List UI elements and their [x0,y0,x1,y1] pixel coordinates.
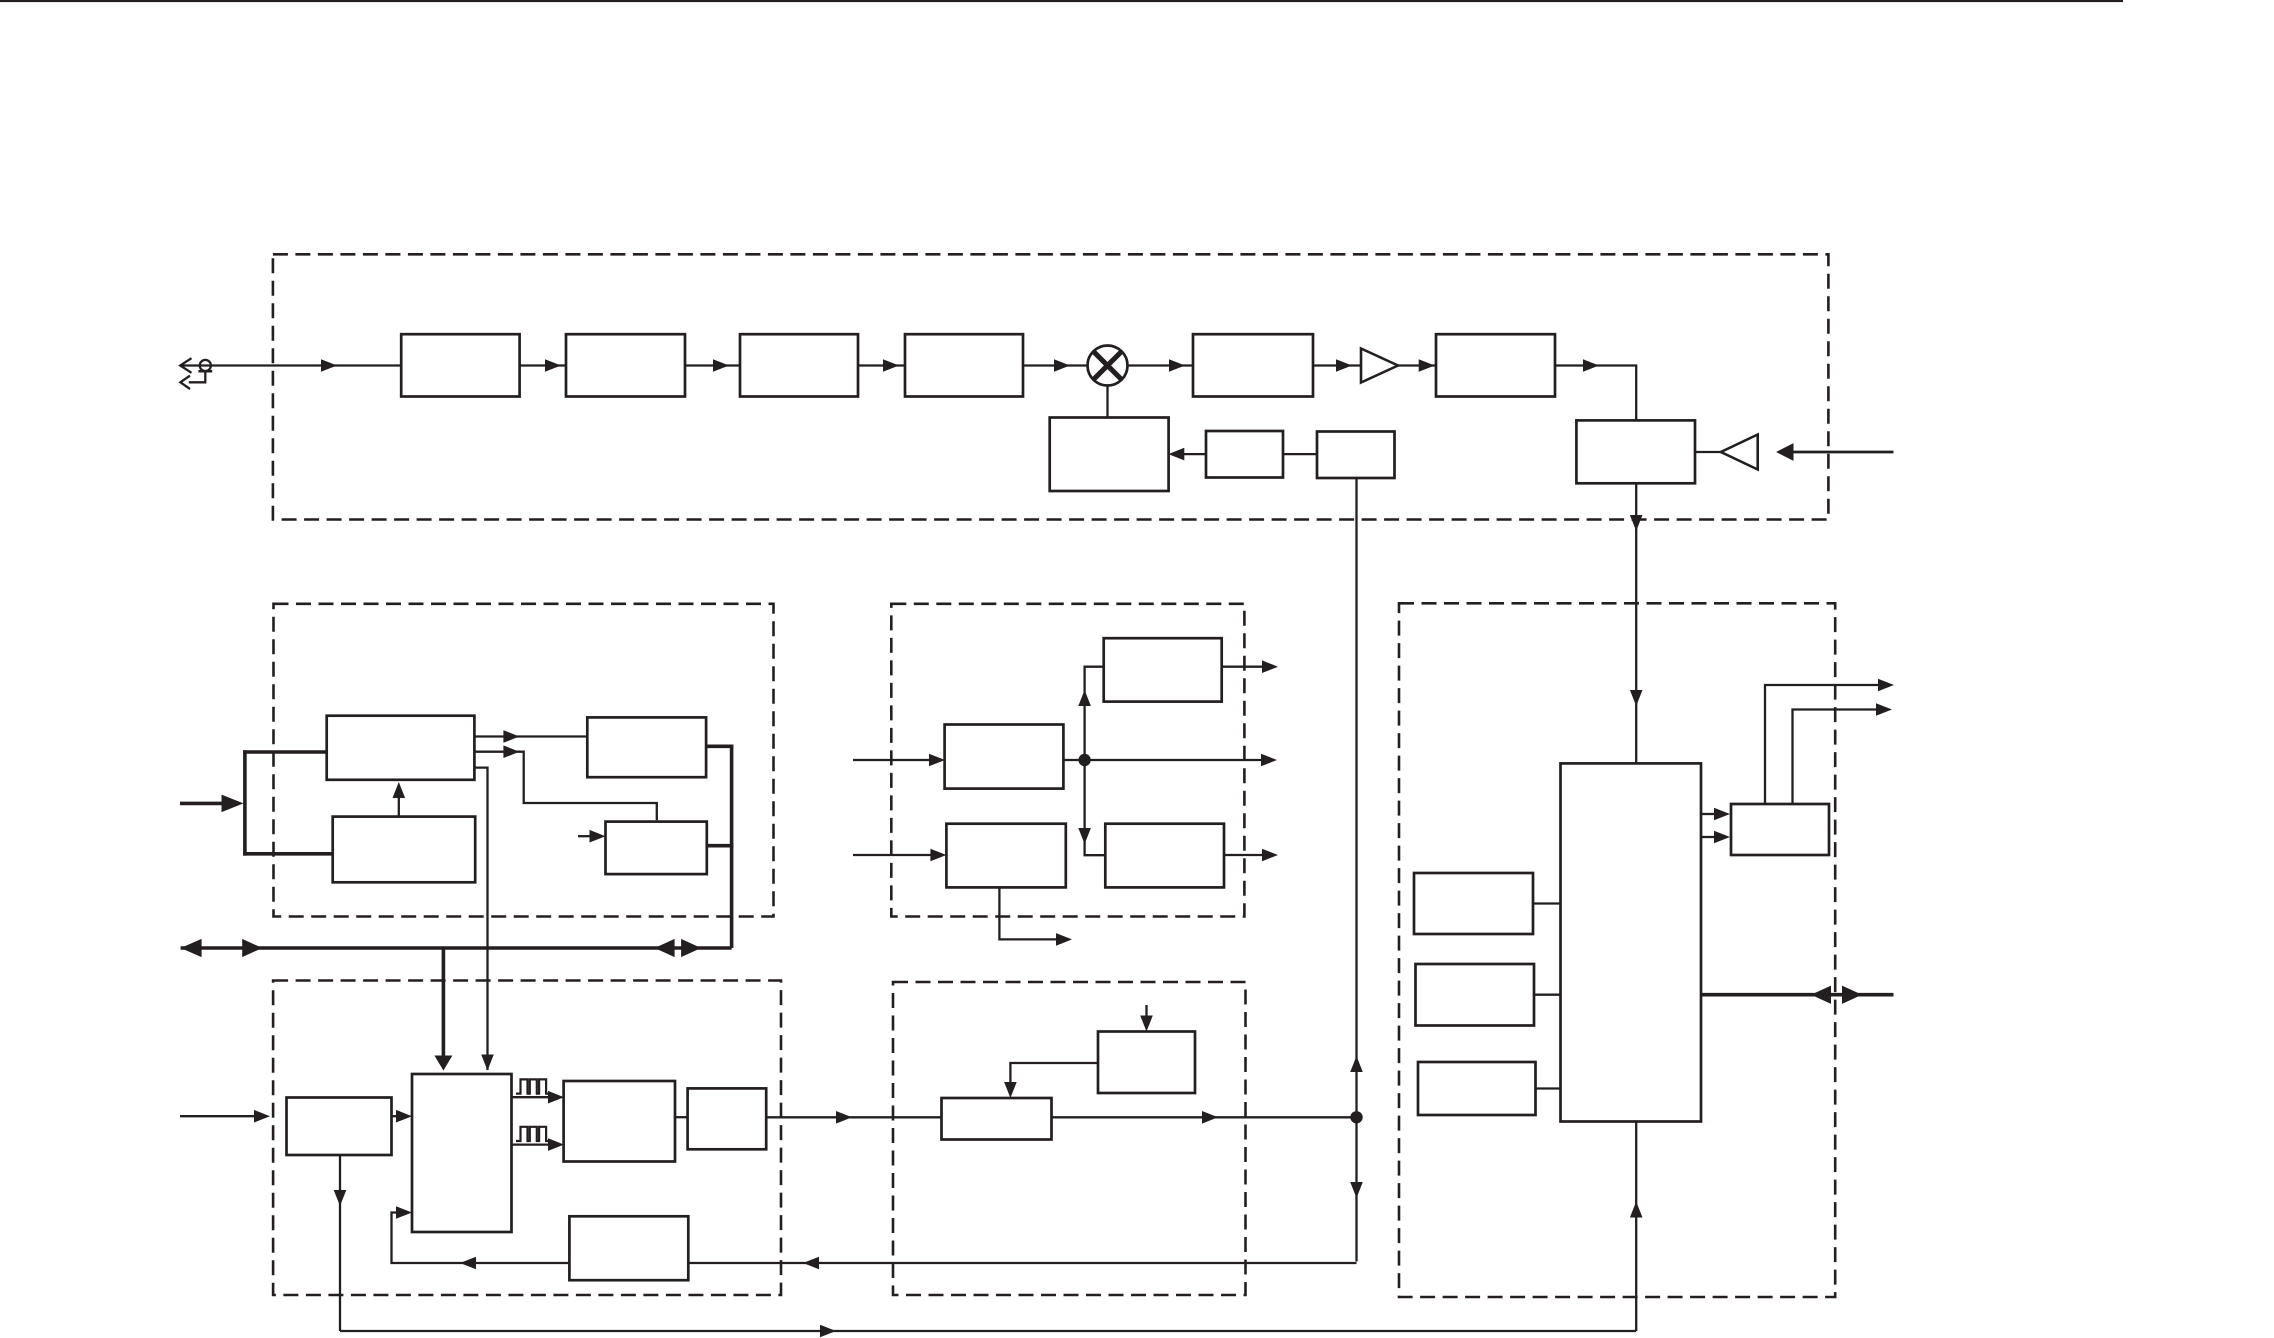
amplifier triangle (left-pointing) [1721,435,1758,470]
block: M2 oscillator [945,725,1064,789]
block: Q VCO (flat) [942,1098,1052,1140]
wire: to block 4 [858,364,905,366]
wire: G output toward center section [766,1116,941,1118]
dashed box: interface section [1399,603,1835,1297]
block: divider small left [1206,431,1283,478]
wire: M3 output arrow right [1224,854,1262,856]
block: A controller [327,716,475,780]
wire: to mixer [1023,364,1088,366]
long vertical wire from reference block down to feedback [1355,477,1357,1262]
block: R3 register [1418,1062,1536,1115]
mixer (circle with X) [1088,346,1128,386]
block: output filter [1436,334,1555,396]
wire: to block 3 [685,364,740,366]
wire: RX detector to amp [1695,451,1721,453]
wire: E bottom down to bottom rail [339,1155,341,1331]
junction node at M2 output [1063,759,1261,761]
dashed box: DSP section [273,981,781,1296]
block: F modulator [564,1081,675,1162]
wire: R2 to controller [1534,994,1561,996]
thick wire: vertical branch to A and B [243,750,247,855]
block: C latch [587,717,706,777]
block: G small output [688,1088,767,1149]
block: reference small right [1317,432,1395,479]
wire: amp to output block [1398,364,1436,366]
block: D buffer [606,822,707,875]
wire: divider to LO with arrow [1182,453,1206,455]
block: local oscillator [1050,418,1169,492]
dashed box: PLL section [893,982,1246,1295]
block: M1 top divider [1104,638,1222,701]
wire: between small blocks [1283,453,1317,455]
bottom rail wire to controller [340,1330,1636,1332]
block: SR output latch [1731,804,1829,855]
wire: DSP out lower to F [512,1143,549,1145]
wire: A to D via corners [474,752,656,821]
wire: input arrow into E [180,1115,254,1117]
thick wire: bidirectional port right [1701,993,1894,997]
block: P loop filter [1098,1032,1195,1094]
wire: M4 output down and right [999,887,1056,939]
wire: output block to RX detector, corner down [1555,366,1636,421]
wire: input into M4 [853,854,932,856]
wire: controller to SR lower arrow [1701,836,1715,838]
block: M3 divider [1105,824,1224,888]
block: RF filter 2 [740,334,858,396]
feedback wire from junction through H to DSP [688,1262,1356,1264]
wire: mixer LO stem [1106,386,1108,418]
block: RF driver [905,334,1023,396]
wire: to amplifier [1313,364,1361,366]
wire: detector down to baseband, arrows [1635,483,1637,763]
block: R1 register [1414,873,1533,934]
wire: DSP out upper to F [512,1096,549,1098]
wire: mixer to IF block [1128,364,1194,366]
wire: A to C with arrow [474,735,587,737]
wire: input into M2 [853,759,929,761]
thick bus: bidirectional data bus [181,946,732,950]
wire: P left corner down into Q [1010,1063,1098,1084]
pulse glyph upper [516,1079,552,1093]
wire: bottom line up into controller with arrow [1635,1122,1637,1332]
stub arrow into D [578,835,590,837]
wire: R3 to controller [1536,1087,1561,1089]
dashed box: clock distribution section [891,604,1244,917]
block: B memory [333,817,476,883]
block: DSP core (tall) [412,1074,512,1232]
wire: R1 to controller [1533,902,1561,904]
wire: A third output down to DSP [474,768,487,1070]
block: RF amp [566,334,685,396]
junction node on long vertical [1350,1111,1362,1123]
block: RF filter 1 [401,334,519,396]
stub arrow into P top [1145,1005,1147,1017]
block: IF filter [1193,334,1313,396]
wire: antenna into receiver chain [321,359,337,372]
wire: E to DSP arrow [392,1115,399,1117]
block: R2 register [1416,964,1535,1026]
dashed box: RF transceiver section [273,254,1829,519]
page top rule [0,0,2123,2]
block: E input conditioner [287,1098,392,1156]
wire: controller to SR upper arrow [1701,813,1715,815]
wire: TX input from right with arrow [1794,451,1894,454]
block: H feedback filter [569,1216,688,1280]
wire: to block 2 [520,364,566,366]
thick input arrow from left [180,802,224,806]
wire: junction down to M3 [1085,760,1106,855]
antenna symbol [180,358,401,389]
wire: B up to A with arrow [398,786,400,817]
wire: F to G [675,1116,688,1118]
dashed box: memory / control section [274,604,774,917]
block: tall interface controller [1561,763,1702,1121]
pulse glyph lower [516,1127,552,1141]
wire: M1 output arrow right [1222,666,1262,668]
block: M4 oscillator 2 [946,824,1065,888]
wire: SR up and out top arrow 1 [1765,685,1878,804]
wire: junction up to M1 [1085,667,1104,760]
thick wire: C and D right edges to vertical [706,744,733,748]
amplifier triangle (right-pointing) [1361,349,1398,383]
wire: Q output to junction [1052,1116,1357,1118]
wire: M2 output arrow right [1261,754,1277,767]
thick wire: bus branch down to DSP [442,948,446,1056]
wire: SR up and out top arrow 2 [1793,710,1877,805]
block: RX detector [1576,420,1695,483]
